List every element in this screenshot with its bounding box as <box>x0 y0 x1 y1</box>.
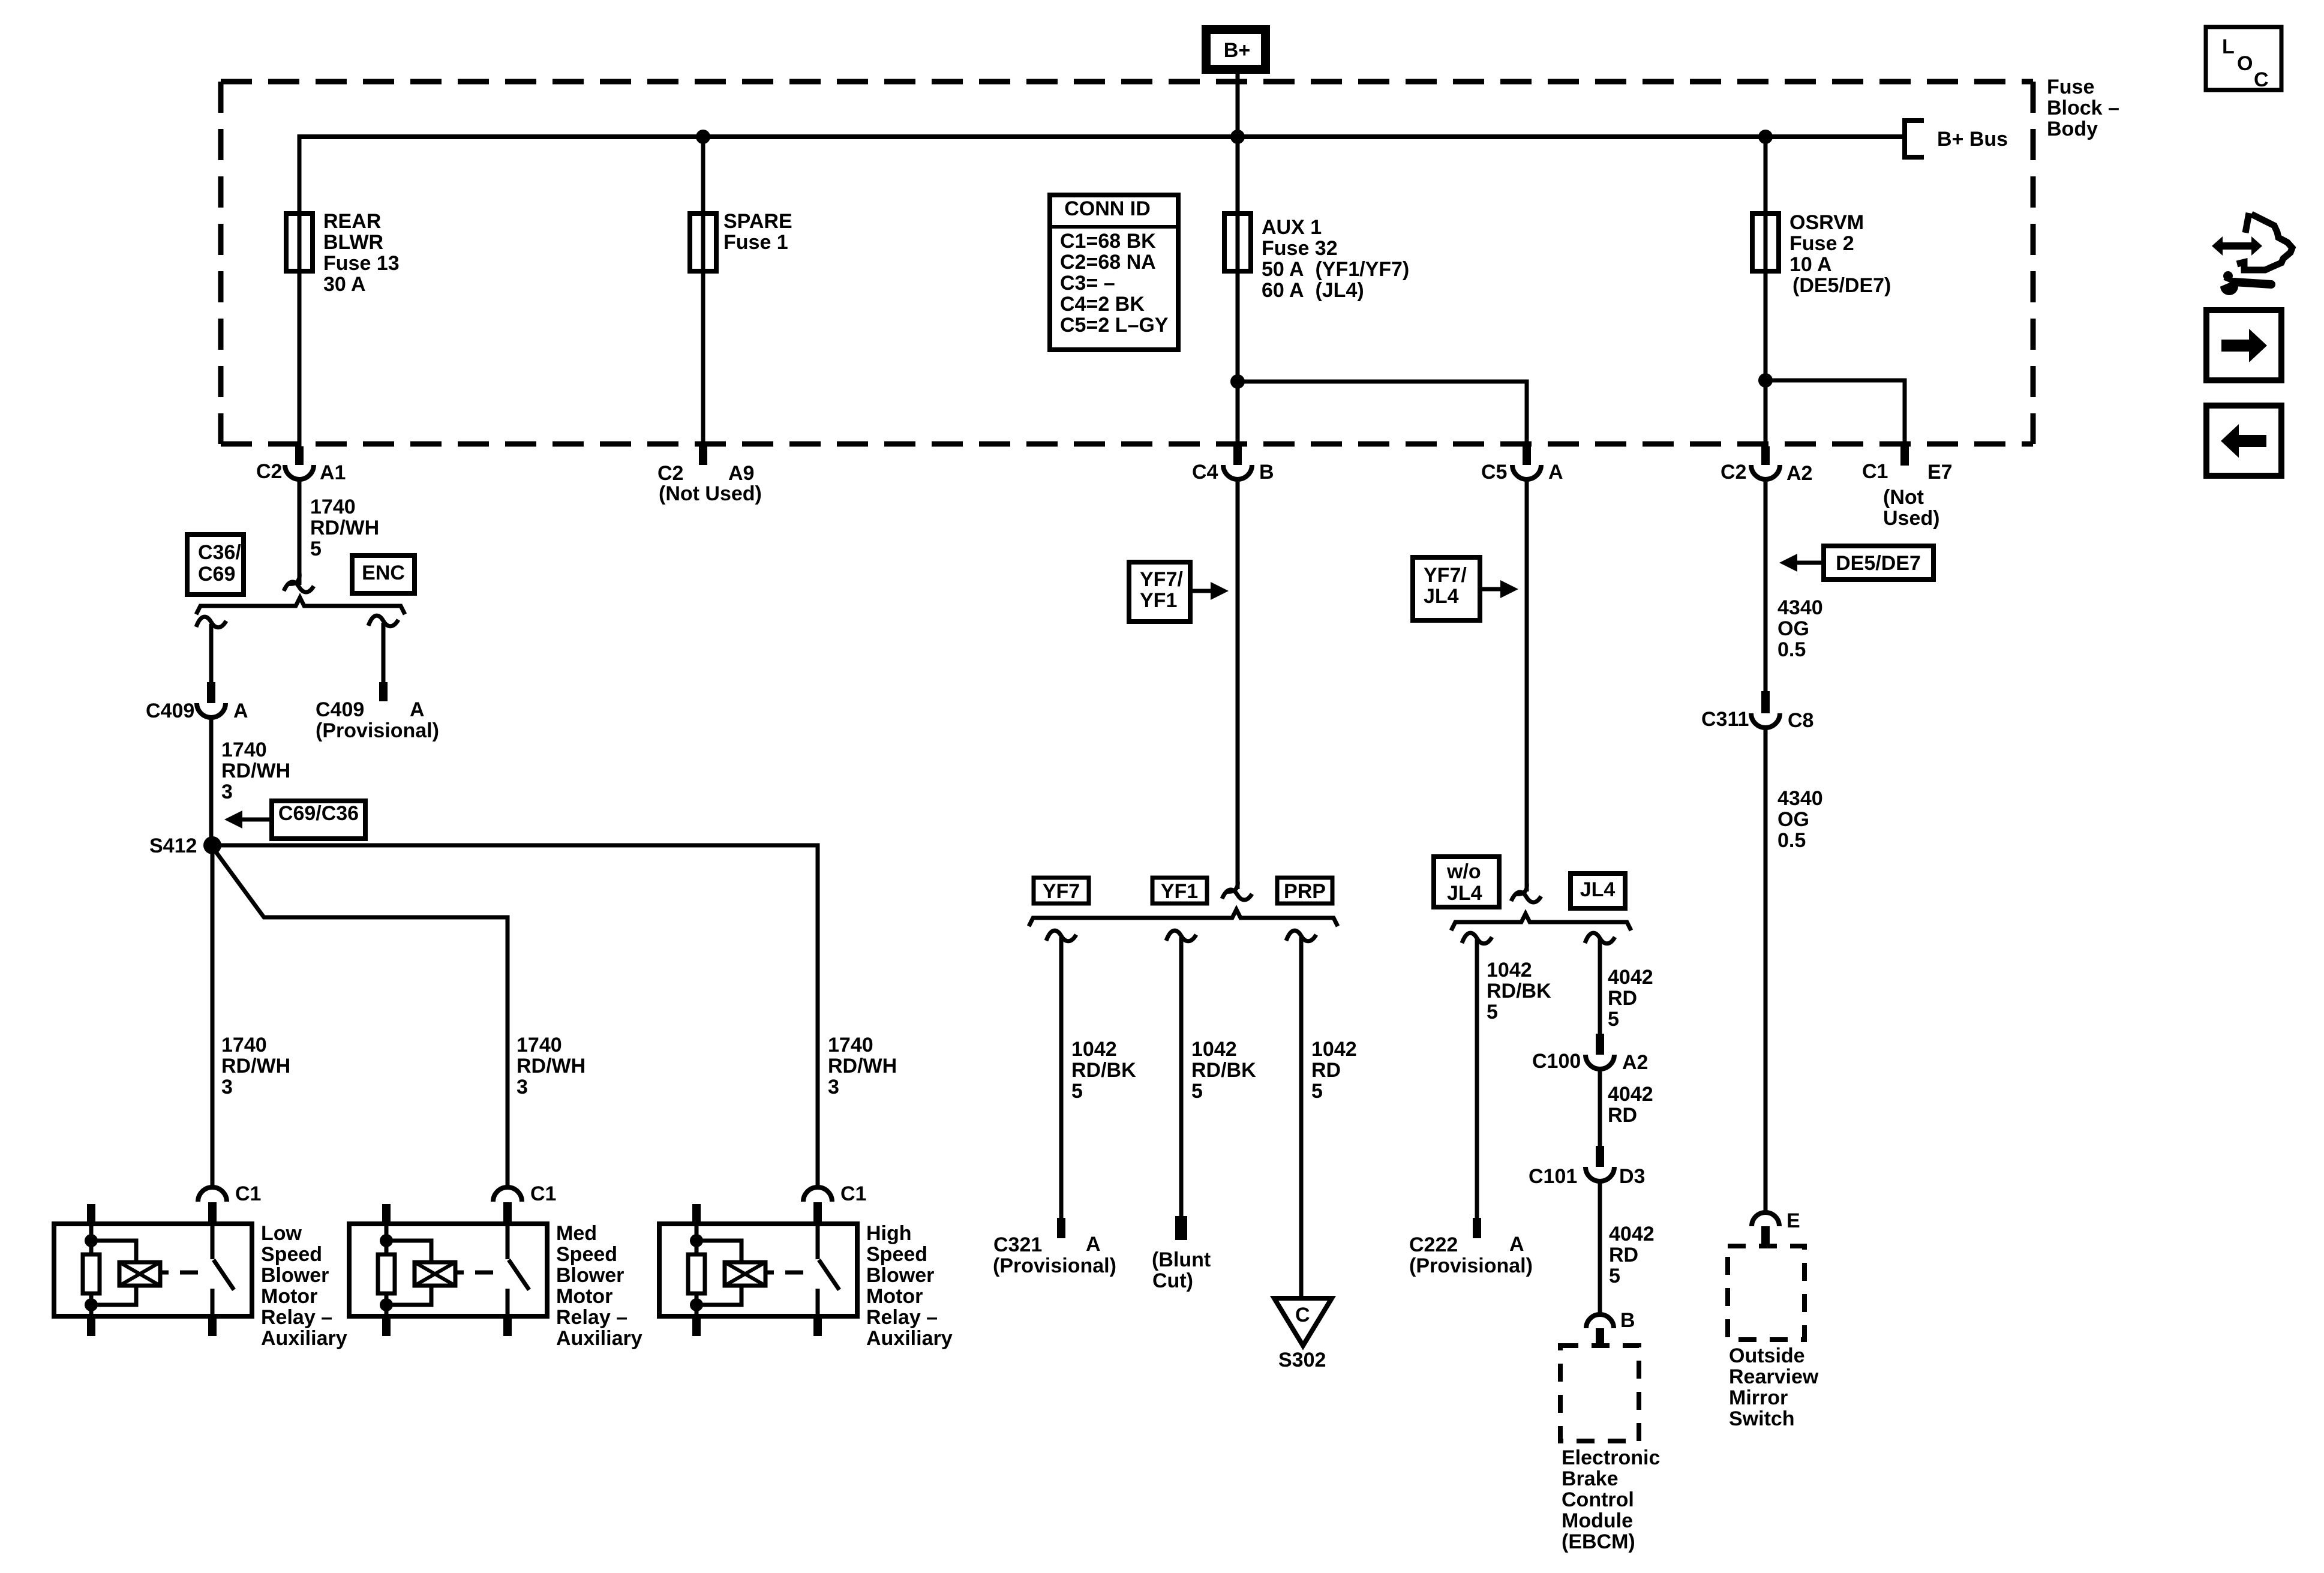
svg-text:YF1: YF1 <box>1140 589 1177 612</box>
svg-text:5: 5 <box>1608 1008 1619 1031</box>
svg-text:Fuse 32: Fuse 32 <box>1262 237 1338 260</box>
svg-text:C1=68 BK: C1=68 BK <box>1060 230 1156 253</box>
svg-text:B+: B+ <box>1224 39 1250 62</box>
svg-text:High: High <box>866 1222 912 1245</box>
wire SPARE fuse feed <box>701 137 705 446</box>
wire S412 to med speed relay <box>212 847 508 1187</box>
svg-text:3: 3 <box>517 1076 528 1098</box>
low speed blower motor relay junction dots <box>85 1234 98 1247</box>
svg-text:C1: C1 <box>840 1182 866 1205</box>
svg-text:Low: Low <box>261 1222 302 1245</box>
connector C2 A2 <box>1761 446 1770 465</box>
low speed blower motor relay coil <box>91 1241 136 1262</box>
svg-text:1740: 1740 <box>221 1034 267 1056</box>
wrench icon <box>2223 271 2233 281</box>
svg-text:O: O <box>2237 52 2253 75</box>
svg-text:Used): Used) <box>1883 507 1939 530</box>
outside rearview mirror switch dashed box <box>1728 1246 1804 1340</box>
svg-text:RD/WH: RD/WH <box>310 517 379 539</box>
svg-text:3: 3 <box>221 1076 233 1098</box>
connector C5 A <box>1523 446 1531 465</box>
low speed blower motor relay resistor <box>89 1224 94 1254</box>
connector C409 A <box>207 682 215 703</box>
svg-text:C100: C100 <box>1532 1050 1581 1073</box>
svg-text:Fuse: Fuse <box>2047 76 2094 98</box>
svg-text:5: 5 <box>310 538 322 560</box>
connector C101 D3 <box>1596 1146 1604 1167</box>
svg-text:D3: D3 <box>1619 1165 1645 1188</box>
svg-text:Auxiliary: Auxiliary <box>866 1327 953 1350</box>
wire curl into brace <box>287 573 299 584</box>
svg-text:E7: E7 <box>1927 461 1953 484</box>
svg-text:RD/WH: RD/WH <box>517 1055 585 1077</box>
option box PRP <box>1277 878 1332 903</box>
fuse AUX 1 Fuse 32 <box>1224 214 1251 271</box>
svg-text:(Blunt: (Blunt <box>1152 1248 1211 1271</box>
svg-text:C1: C1 <box>1862 460 1888 483</box>
junction dot bus/OSRVM <box>1758 130 1773 144</box>
svg-text:RD/WH: RD/WH <box>221 1055 290 1077</box>
svg-text:Mirror: Mirror <box>1729 1386 1788 1409</box>
brace under C36/C69 and ENC <box>196 598 405 614</box>
svg-text:RD/BK: RD/BK <box>1071 1059 1136 1082</box>
svg-text:Med: Med <box>556 1222 597 1245</box>
connector C321 A (Provisional) pin <box>1057 1218 1065 1238</box>
junction dot bus/SPARE <box>696 130 710 144</box>
svg-text:C2: C2 <box>256 460 282 483</box>
svg-text:E: E <box>1786 1209 1800 1232</box>
low speed blower motor relay box <box>54 1224 252 1316</box>
svg-text:5: 5 <box>1071 1080 1083 1103</box>
low speed blower motor relay linkage <box>160 1271 169 1275</box>
svg-text:Motor: Motor <box>261 1285 317 1308</box>
svg-text:YF7/: YF7/ <box>1424 564 1467 587</box>
svg-text:Relay –: Relay – <box>261 1306 332 1329</box>
svg-text:(Provisional): (Provisional) <box>316 719 439 742</box>
svg-text:4340: 4340 <box>1777 787 1823 810</box>
svg-text:0.5: 0.5 <box>1777 638 1806 661</box>
svg-text:OSRVM: OSRVM <box>1789 211 1864 234</box>
wire S412 to high speed relay <box>212 845 818 1187</box>
svg-text:Brake: Brake <box>1562 1467 1619 1490</box>
svg-text:Outside: Outside <box>1729 1344 1805 1367</box>
svg-text:Body: Body <box>2047 118 2098 140</box>
wire C4 down to brace <box>1236 479 1240 889</box>
fuse OSRVM Fuse 2 10A <box>1752 214 1779 271</box>
low speed blower motor relay pin top-left <box>87 1204 95 1224</box>
fuse SPARE Fuse 1 <box>690 214 716 271</box>
wire PRP branch to S302 <box>1299 937 1304 1298</box>
CONN ID table <box>1050 195 1178 350</box>
connector C100 A2 <box>1596 1034 1604 1055</box>
svg-text:1740: 1740 <box>517 1034 562 1056</box>
svg-text:1042: 1042 <box>1071 1038 1117 1061</box>
svg-text:Cut): Cut) <box>1152 1269 1193 1292</box>
svg-text:C1: C1 <box>530 1182 556 1205</box>
arrow box C69/C36 <box>272 801 365 839</box>
svg-text:C101: C101 <box>1529 1165 1577 1188</box>
svg-text:Block –: Block – <box>2047 97 2119 119</box>
svg-text:Motor: Motor <box>556 1285 612 1308</box>
svg-text:Auxiliary: Auxiliary <box>261 1327 347 1350</box>
wire w/o JL4 branch to C222 <box>1475 939 1479 1219</box>
svg-text:0.5: 0.5 <box>1777 829 1806 852</box>
svg-text:JL4: JL4 <box>1580 878 1616 901</box>
arrow box YF7/JL4 <box>1413 557 1480 620</box>
svg-text:RD/BK: RD/BK <box>1487 980 1551 1002</box>
high speed blower motor relay switch <box>816 1224 820 1259</box>
high speed blower motor relay resistor <box>695 1224 699 1254</box>
svg-text:4042: 4042 <box>1609 1223 1655 1245</box>
svg-text:L: L <box>2222 35 2235 58</box>
connector C4 B <box>1233 446 1242 465</box>
svg-text:(Not: (Not <box>1883 486 1924 509</box>
svg-text:(Provisional): (Provisional) <box>1409 1254 1533 1277</box>
svg-text:C1: C1 <box>235 1182 261 1205</box>
svg-text:Module: Module <box>1562 1509 1633 1532</box>
wire C101 to EBCM <box>1598 1181 1602 1315</box>
svg-text:10 A: 10 A <box>1789 253 1832 276</box>
svg-text:30 A: 30 A <box>323 273 366 296</box>
low speed blower motor relay pin bottom-left <box>87 1316 95 1336</box>
svg-text:50 A (YF1/YF7): 50 A (YF1/YF7) <box>1262 258 1409 281</box>
wire down to C409 A provisional <box>382 623 386 684</box>
svg-text:Relay –: Relay – <box>866 1306 938 1329</box>
B+ Bus bracket terminal <box>1905 121 1924 157</box>
svg-text:Speed: Speed <box>556 1243 617 1266</box>
low speed blower motor relay switch <box>211 1224 215 1259</box>
wire break PRP branch <box>1286 930 1316 941</box>
option box YF1 <box>1152 878 1207 903</box>
svg-text:Motor: Motor <box>866 1285 923 1308</box>
svg-text:C4: C4 <box>1192 461 1218 484</box>
connector E mirror switch <box>1752 1212 1779 1226</box>
svg-text:C8: C8 <box>1788 709 1813 732</box>
connector C311 C8 <box>1761 691 1770 713</box>
wire OSRVM fuse feed <box>1764 137 1768 446</box>
svg-text:RD: RD <box>1609 1244 1638 1266</box>
backward arrow legend box <box>2206 406 2281 476</box>
wire C2 A2 down to C311 <box>1764 479 1768 693</box>
forward arrow legend box <box>2206 310 2281 380</box>
svg-text:JL4: JL4 <box>1424 585 1459 608</box>
wire S412 to low speed relay <box>211 845 215 1187</box>
vehicle direction icon <box>2245 213 2249 233</box>
svg-text:A: A <box>233 700 248 722</box>
svg-text:3: 3 <box>828 1076 839 1098</box>
splice S302 ground triangle <box>1274 1298 1332 1346</box>
svg-text:A1: A1 <box>320 461 346 484</box>
svg-text:5: 5 <box>1487 1001 1498 1023</box>
B+ bus bar <box>299 134 1903 139</box>
svg-text:Electronic: Electronic <box>1562 1446 1660 1469</box>
option box YF7 <box>1034 878 1089 903</box>
fuse block dashed border <box>221 79 2033 85</box>
svg-text:Blower: Blower <box>866 1264 934 1287</box>
wire C409 to S412 <box>209 718 214 845</box>
svg-text:C2: C2 <box>657 462 683 485</box>
blunt cut terminal <box>1175 1216 1187 1240</box>
svg-text:C5: C5 <box>1481 461 1507 484</box>
svg-text:ENC: ENC <box>362 562 405 584</box>
high speed blower motor relay coil <box>696 1241 741 1262</box>
svg-text:1740: 1740 <box>310 496 356 518</box>
connector C1 E7 (Not Used) <box>1900 446 1909 466</box>
svg-text:Rearview: Rearview <box>1729 1365 1819 1388</box>
svg-text:RD: RD <box>1608 1104 1637 1127</box>
svg-text:(DE5/DE7): (DE5/DE7) <box>1792 274 1891 297</box>
junction dot bus/AUX1 <box>1230 130 1245 144</box>
wire YF1 branch to blunt cut <box>1179 937 1184 1217</box>
high speed blower motor relay linkage <box>765 1271 774 1275</box>
svg-text:YF7: YF7 <box>1043 880 1080 903</box>
svg-text:C2: C2 <box>1721 461 1746 484</box>
svg-text:C321: C321 <box>993 1233 1042 1256</box>
svg-text:A2: A2 <box>1786 462 1812 485</box>
svg-text:YF7/: YF7/ <box>1140 568 1183 591</box>
brace YF7/YF1/PRP <box>1029 909 1338 926</box>
svg-text:5: 5 <box>1311 1080 1323 1103</box>
svg-text:RD/WH: RD/WH <box>221 760 290 782</box>
svg-text:1740: 1740 <box>828 1034 873 1056</box>
med speed blower motor relay pin bottom-right <box>503 1316 512 1336</box>
junction dot AUX1/C5 branch <box>1230 374 1245 389</box>
svg-text:C311: C311 <box>1701 708 1749 731</box>
svg-text:SPARE: SPARE <box>723 210 792 233</box>
brace w/o JL4 / JL4 <box>1451 914 1631 930</box>
high speed blower motor relay box <box>659 1224 857 1316</box>
svg-text:A: A <box>1509 1233 1524 1256</box>
connector C409 A (Provisional) pin <box>379 682 388 701</box>
svg-text:B: B <box>1620 1309 1635 1332</box>
svg-text:A2: A2 <box>1622 1051 1648 1074</box>
wire B+ to bus <box>1236 74 1240 139</box>
svg-text:OG: OG <box>1777 808 1809 831</box>
svg-text:Switch: Switch <box>1729 1407 1795 1430</box>
B+ power feed box <box>1202 25 1270 74</box>
svg-text:Speed: Speed <box>261 1243 322 1266</box>
med speed blower motor relay switch <box>506 1224 510 1259</box>
svg-text:DE5/DE7: DE5/DE7 <box>1836 552 1921 575</box>
wire break to C409 A provisional <box>368 616 398 626</box>
svg-text:(EBCM): (EBCM) <box>1562 1530 1635 1553</box>
option box JL4 <box>1571 873 1625 908</box>
svg-text:C: C <box>2254 68 2269 91</box>
wire REAR BLWR fuse feed <box>298 134 302 446</box>
svg-text:(Provisional): (Provisional) <box>993 1254 1116 1277</box>
svg-text:A9: A9 <box>728 462 754 485</box>
svg-text:w/o: w/o <box>1446 860 1481 883</box>
svg-text:Blower: Blower <box>556 1264 624 1287</box>
svg-text:C3= –: C3= – <box>1060 272 1115 295</box>
wire C2 A1 down to harness brace <box>298 479 302 585</box>
svg-text:AUX 1: AUX 1 <box>1262 216 1322 239</box>
svg-text:A: A <box>1548 461 1563 484</box>
svg-text:Relay –: Relay – <box>556 1306 627 1329</box>
med speed blower motor relay linkage <box>455 1271 464 1275</box>
EBCM dashed box <box>1560 1346 1639 1441</box>
svg-text:A: A <box>1086 1233 1101 1256</box>
wire branch to C1 E7 <box>1765 380 1905 446</box>
low speed blower motor relay pin bottom-right <box>208 1316 217 1336</box>
arrow box YF7/YF1 <box>1129 562 1190 622</box>
svg-text:1740: 1740 <box>221 739 267 761</box>
high speed blower motor relay junction dots <box>690 1234 703 1247</box>
svg-text:Blower: Blower <box>261 1264 329 1287</box>
svg-text:S412: S412 <box>149 834 197 857</box>
wire C100 to C101 <box>1598 1069 1602 1148</box>
svg-text:REAR: REAR <box>323 210 381 233</box>
connector box C36/C69 <box>187 535 244 595</box>
svg-text:PRP: PRP <box>1284 880 1326 903</box>
svg-text:B: B <box>1259 461 1274 484</box>
wire down to C409 A <box>209 624 214 684</box>
svg-text:1042: 1042 <box>1191 1038 1237 1061</box>
med speed blower motor relay resistor <box>385 1224 389 1254</box>
svg-text:3: 3 <box>221 781 233 803</box>
svg-text:4042: 4042 <box>1608 1083 1653 1106</box>
svg-text:4042: 4042 <box>1608 966 1653 989</box>
med speed blower motor relay box <box>349 1224 547 1316</box>
wire break JL4 branch <box>1585 933 1615 944</box>
wire curl into YF7 brace <box>1226 881 1238 891</box>
fuse REAR BLWR Fuse 13 30A <box>286 214 313 271</box>
svg-text:C4=2 BK: C4=2 BK <box>1060 293 1145 316</box>
svg-text:C5=2 L–GY: C5=2 L–GY <box>1060 314 1169 337</box>
high speed blower motor relay pin top-left <box>692 1204 701 1224</box>
wire branch to C5 <box>1238 382 1527 446</box>
svg-text:5: 5 <box>1191 1080 1203 1103</box>
connector B EBCM <box>1586 1314 1614 1328</box>
wire break w/o JL4 branch <box>1462 933 1492 944</box>
svg-text:C222: C222 <box>1409 1233 1458 1256</box>
svg-text:60 A (JL4): 60 A (JL4) <box>1262 279 1364 302</box>
svg-text:C69: C69 <box>198 563 235 586</box>
med speed blower motor relay junction dots <box>380 1234 393 1247</box>
wire C311 to mirror switch <box>1764 728 1768 1212</box>
wire curl into JL4 brace <box>1515 883 1527 894</box>
svg-text:B+ Bus: B+ Bus <box>1937 128 2008 151</box>
svg-text:C69/C36: C69/C36 <box>278 802 359 825</box>
svg-text:JL4: JL4 <box>1447 882 1482 905</box>
svg-text:RD/WH: RD/WH <box>828 1055 897 1077</box>
svg-text:Auxiliary: Auxiliary <box>556 1327 642 1350</box>
LOC legend box <box>2206 27 2281 90</box>
svg-text:1042: 1042 <box>1311 1038 1357 1061</box>
svg-text:C2=68 NA: C2=68 NA <box>1060 251 1156 274</box>
svg-text:BLWR: BLWR <box>323 231 383 254</box>
svg-text:OG: OG <box>1777 617 1809 640</box>
wire JL4 branch to C100 <box>1598 939 1602 1035</box>
svg-text:(Not Used): (Not Used) <box>659 482 762 505</box>
svg-text:RD: RD <box>1311 1059 1341 1082</box>
svg-text:YF1: YF1 <box>1161 880 1198 903</box>
junction dot OSRVM/E7 branch <box>1758 373 1773 388</box>
svg-text:Fuse 13: Fuse 13 <box>323 252 400 275</box>
svg-text:1042: 1042 <box>1487 959 1532 981</box>
svg-text:C: C <box>1295 1304 1310 1326</box>
svg-text:Fuse 1: Fuse 1 <box>723 231 788 254</box>
connector C1 high speed blower motor relay <box>803 1187 832 1202</box>
high speed blower motor relay pin bottom-left <box>692 1316 701 1336</box>
connector C2 A9 (Not Used) <box>699 446 707 465</box>
splice S412 <box>203 836 221 854</box>
wire break to C409 A <box>196 617 226 628</box>
med speed blower motor relay pin top-left <box>382 1204 391 1224</box>
med speed blower motor relay coil <box>386 1241 431 1262</box>
wire break YF1 branch <box>1166 930 1196 941</box>
arrow box DE5/DE7 <box>1824 546 1933 580</box>
svg-text:S302: S302 <box>1278 1349 1326 1371</box>
connector box ENC <box>352 556 415 593</box>
svg-text:A: A <box>410 698 425 721</box>
svg-text:C409: C409 <box>146 700 194 722</box>
svg-text:C36/: C36/ <box>198 541 241 564</box>
svg-text:4340: 4340 <box>1777 596 1823 619</box>
svg-text:Fuse 2: Fuse 2 <box>1789 232 1854 255</box>
svg-text:5: 5 <box>1609 1265 1620 1287</box>
svg-text:RD/BK: RD/BK <box>1191 1059 1256 1082</box>
wire YF7 branch to C321 <box>1059 937 1064 1219</box>
svg-text:CONN ID: CONN ID <box>1064 197 1151 220</box>
svg-text:C409: C409 <box>316 698 364 721</box>
option box w/o JL4 <box>1434 857 1499 907</box>
wire AUX1 fuse feed <box>1236 137 1240 446</box>
connector C2 A1 <box>295 446 304 465</box>
high speed blower motor relay pin bottom-right <box>813 1316 822 1336</box>
svg-text:RD: RD <box>1608 987 1637 1010</box>
med speed blower motor relay pin bottom-left <box>382 1316 391 1336</box>
wire break YF7 branch <box>1046 930 1076 941</box>
connector C1 med speed blower motor relay <box>493 1187 522 1202</box>
wire C5 down to brace <box>1525 479 1529 891</box>
connector C1 low speed blower motor relay <box>198 1187 227 1202</box>
svg-text:Control: Control <box>1562 1488 1634 1511</box>
connector C222 A (Provisional) pin <box>1473 1218 1481 1238</box>
svg-text:Speed: Speed <box>866 1243 927 1266</box>
